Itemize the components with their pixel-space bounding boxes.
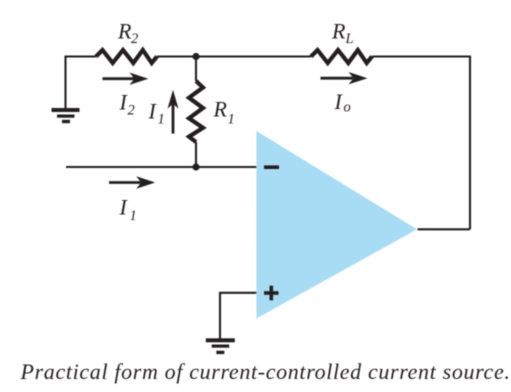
svg-text:Practical form of current-cont: Practical form of current-controlled cur…	[20, 359, 511, 384]
svg-text:I: I	[148, 98, 158, 123]
resistor R2	[96, 50, 157, 63]
wire op-amp output	[418, 228, 471, 230]
current arrow I2	[103, 73, 149, 85]
svg-text:L: L	[345, 31, 354, 47]
wire top-left horizontal (ground corner to R2)	[66, 55, 97, 57]
svg-text:1: 1	[158, 111, 165, 127]
wire R1 bottom stub	[195, 142, 197, 167]
op-amp U1	[256, 131, 417, 319]
wire RL right to top-right corner and down right side	[372, 57, 470, 230]
current arrow I1 (input line)	[109, 176, 155, 188]
svg-text:R: R	[117, 19, 132, 44]
svg-text:R: R	[331, 19, 346, 44]
svg-text:o: o	[344, 100, 351, 116]
op-amp non-inverting input plus sign	[264, 286, 279, 301]
svg-text:2: 2	[131, 31, 138, 47]
label I2	[119, 90, 135, 119]
ground (bottom, at non-inverting input)	[206, 338, 235, 354]
node A junction dot (top of R1)	[192, 53, 199, 60]
svg-text:I: I	[334, 89, 344, 114]
svg-text:2: 2	[128, 103, 135, 119]
svg-text:R: R	[213, 96, 228, 121]
svg-text:1: 1	[130, 208, 137, 224]
op-amp inverting input minus sign	[264, 165, 279, 169]
label I1 (beside R1 arrow)	[148, 98, 165, 127]
wire inverting input (I1 line)	[66, 166, 256, 168]
label I1 (input line)	[119, 195, 137, 225]
node B junction dot (bottom of R1)	[192, 163, 199, 170]
current arrow I1 (up, beside R1)	[168, 90, 179, 134]
label R2	[117, 19, 138, 48]
svg-text:1: 1	[228, 111, 235, 127]
resistor RL	[311, 50, 372, 63]
label R1	[213, 96, 235, 127]
label RL	[331, 19, 354, 48]
wire R1 top stub	[195, 57, 197, 82]
wire non-inverting input	[220, 293, 256, 339]
wire R2 right to node A	[157, 55, 196, 57]
label Io	[334, 89, 351, 116]
current arrow Io	[321, 72, 368, 84]
wire node A to RL left	[196, 55, 311, 57]
resistor R1	[189, 81, 203, 142]
wire left vertical (corner down to ground)	[64, 56, 66, 109]
ground (left, below R2)	[52, 108, 80, 123]
svg-text:I: I	[119, 195, 129, 220]
